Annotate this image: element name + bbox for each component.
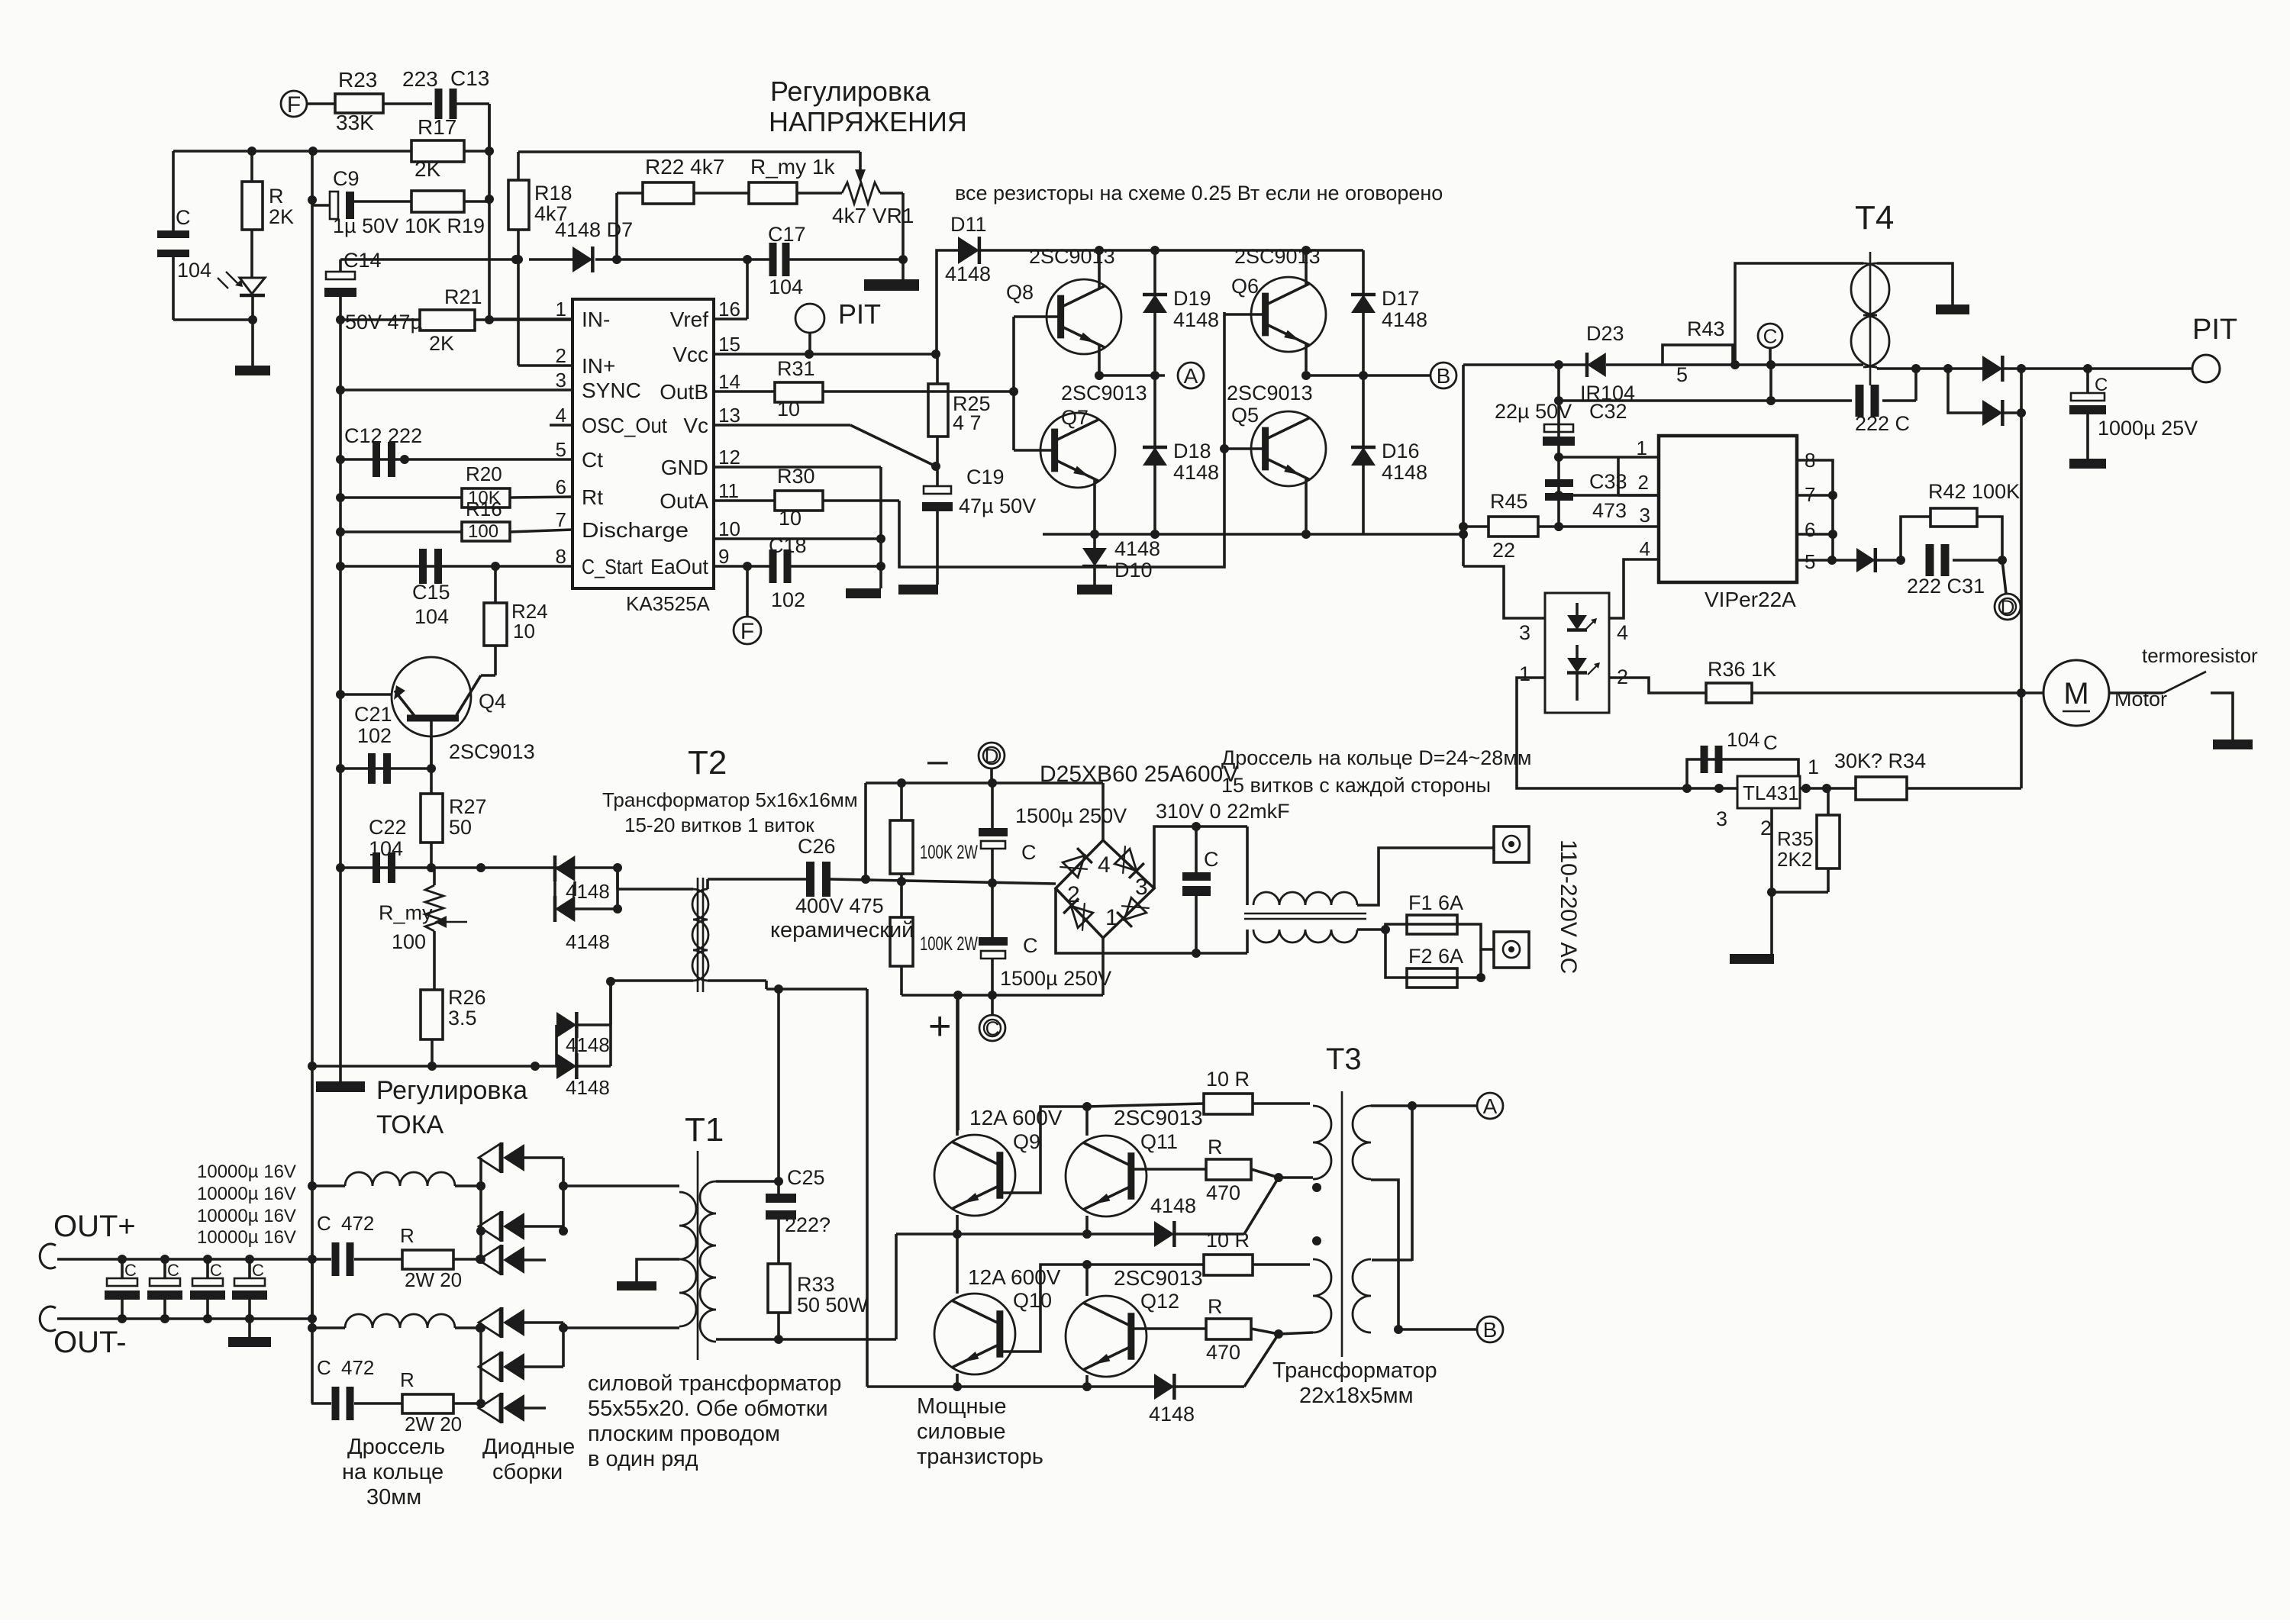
svg-text:13: 13 [718, 404, 740, 427]
svg-text:A: A [1483, 1094, 1498, 1118]
svg-text:1500µ 250V: 1500µ 250V [1015, 804, 1127, 827]
svg-text:OUT-: OUT- [53, 1326, 127, 1359]
svg-text:транзисторь: транзисторь [917, 1445, 1043, 1469]
svg-text:4148: 4148 [1382, 461, 1427, 484]
svg-text:Регулировка: Регулировка [376, 1076, 527, 1105]
svg-text:50 50W: 50 50W [797, 1294, 869, 1316]
svg-text:R22 4k7: R22 4k7 [645, 155, 724, 179]
svg-text:R_my 1k: R_my 1k [750, 155, 835, 179]
svg-text:9: 9 [718, 545, 729, 568]
svg-text:10000µ 16V: 10000µ 16V [197, 1184, 296, 1204]
svg-text:R: R [400, 1224, 414, 1247]
svg-text:104: 104 [1727, 728, 1759, 751]
svg-text:GND: GND [661, 456, 708, 479]
svg-text:3: 3 [1519, 621, 1530, 644]
svg-text:100: 100 [468, 521, 498, 542]
svg-text:10: 10 [777, 398, 800, 420]
svg-text:R30: R30 [777, 465, 815, 488]
svg-text:33K: 33K [336, 111, 374, 134]
svg-text:Q12: Q12 [1140, 1290, 1179, 1313]
svg-text:F: F [287, 92, 301, 118]
svg-text:M: M [2063, 677, 2088, 710]
svg-text:222?: 222? [785, 1213, 831, 1236]
svg-text:C: C [317, 1212, 331, 1235]
svg-text:10K R19: 10K R19 [405, 214, 485, 237]
svg-text:10: 10 [513, 620, 535, 643]
svg-text:OUT+: OUT+ [53, 1210, 136, 1243]
svg-text:R17: R17 [418, 115, 456, 139]
svg-text:12: 12 [718, 446, 740, 469]
svg-text:C25: C25 [787, 1166, 825, 1189]
svg-text:R: R [269, 185, 284, 208]
svg-text:3: 3 [1716, 807, 1727, 830]
svg-text:4148: 4148 [1114, 537, 1160, 560]
svg-text:T3: T3 [1326, 1042, 1362, 1076]
svg-text:4148: 4148 [945, 263, 991, 285]
svg-text:R: R [1208, 1136, 1223, 1158]
svg-text:D16: D16 [1382, 440, 1420, 462]
svg-text:B: B [1437, 364, 1451, 388]
svg-text:D: D [985, 744, 999, 767]
svg-text:4148: 4148 [1149, 1403, 1195, 1426]
svg-text:Rt: Rt [582, 485, 603, 509]
svg-text:3.5: 3.5 [448, 1007, 477, 1029]
svg-text:KA3525A: KA3525A [626, 592, 711, 615]
svg-text:4148: 4148 [1382, 308, 1427, 331]
svg-text:сборки: сборки [492, 1460, 563, 1484]
svg-text:4148 D7: 4148 D7 [555, 218, 633, 241]
svg-text:50: 50 [449, 816, 472, 839]
svg-text:Q8: Q8 [1006, 281, 1034, 304]
svg-text:R31: R31 [777, 357, 815, 380]
svg-text:1000µ 25V: 1000µ 25V [2098, 417, 2198, 440]
svg-text:6: 6 [1805, 518, 1815, 541]
svg-text:4: 4 [1098, 852, 1111, 878]
svg-text:100K 2W: 100K 2W [920, 842, 978, 863]
svg-text:Трансформатор: Трансформатор [1272, 1358, 1437, 1383]
svg-text:C: C [1021, 841, 1037, 864]
svg-text:22: 22 [1492, 539, 1515, 562]
svg-text:10: 10 [779, 507, 801, 530]
svg-text:D: D [2001, 595, 2015, 618]
svg-text:2: 2 [556, 344, 566, 367]
svg-text:C: C [252, 1261, 264, 1280]
svg-text:C: C [317, 1356, 331, 1379]
svg-text:Дроссель: Дроссель [347, 1435, 445, 1459]
svg-text:2K: 2K [269, 205, 294, 228]
svg-text:1µ 50V: 1µ 50V [333, 214, 398, 237]
svg-text:100K 2W: 100K 2W [920, 933, 978, 955]
svg-text:10000µ 16V: 10000µ 16V [197, 1206, 296, 1226]
svg-text:R45: R45 [1490, 490, 1528, 513]
svg-text:R: R [1208, 1295, 1223, 1318]
svg-text:C: C [2095, 375, 2108, 395]
svg-text:силовые: силовые [917, 1419, 1005, 1444]
svg-text:14: 14 [718, 370, 740, 393]
svg-text:C9: C9 [333, 167, 360, 190]
svg-text:55x55x20. Обе обмотки: 55x55x20. Обе обмотки [588, 1397, 828, 1421]
svg-text:Регулировка: Регулировка [770, 76, 931, 107]
svg-text:1: 1 [1105, 905, 1118, 930]
svg-text:C26: C26 [798, 835, 836, 858]
svg-text:12A 600V: 12A 600V [968, 1265, 1061, 1289]
svg-text:2SC9013: 2SC9013 [1114, 1106, 1203, 1129]
svg-text:R36 1K: R36 1K [1708, 658, 1776, 681]
svg-text:C32: C32 [1589, 400, 1627, 423]
svg-text:R27: R27 [449, 795, 487, 818]
svg-text:10000µ 16V: 10000µ 16V [197, 1227, 296, 1248]
svg-text:C13: C13 [450, 66, 489, 90]
svg-text:473: 473 [1592, 499, 1627, 522]
svg-text:TL431: TL431 [1743, 781, 1799, 804]
svg-text:Motor: Motor [2114, 688, 2167, 710]
svg-text:30K? R34: 30K? R34 [1834, 749, 1926, 772]
svg-text:Discharge: Discharge [582, 518, 689, 542]
svg-text:VIPer22A: VIPer22A [1705, 588, 1796, 611]
svg-text:470: 470 [1206, 1181, 1240, 1204]
svg-text:T2: T2 [688, 744, 727, 781]
svg-text:PIT: PIT [838, 298, 881, 330]
svg-text:4: 4 [1617, 621, 1628, 644]
svg-text:D18: D18 [1173, 440, 1211, 462]
svg-text:104: 104 [414, 605, 449, 628]
svg-text:104: 104 [369, 837, 403, 860]
svg-text:Q7: Q7 [1061, 406, 1089, 429]
svg-text:C21: C21 [354, 703, 392, 726]
svg-text:110-220V AC: 110-220V AC [1556, 839, 1581, 974]
svg-text:керамический: керамический [770, 918, 914, 942]
svg-text:3: 3 [1640, 504, 1650, 527]
svg-text:Q11: Q11 [1140, 1130, 1178, 1153]
svg-text:T1: T1 [685, 1111, 724, 1149]
svg-text:R43: R43 [1687, 317, 1725, 340]
svg-text:C33: C33 [1589, 470, 1627, 493]
svg-text:C: C [124, 1261, 137, 1280]
svg-text:на кольце: на кольце [342, 1460, 443, 1484]
svg-text:OSC_Out: OSC_Out [582, 414, 667, 437]
svg-text:50V 47µ: 50V 47µ [345, 311, 422, 333]
svg-text:R: R [400, 1368, 414, 1391]
svg-text:4148: 4148 [566, 1076, 610, 1099]
svg-text:C: C [1763, 324, 1778, 347]
svg-text:C15: C15 [412, 581, 450, 604]
svg-text:C14: C14 [343, 249, 382, 272]
svg-text:ТОКА: ТОКА [376, 1110, 443, 1139]
svg-text:T4: T4 [1855, 199, 1894, 237]
svg-text:11: 11 [718, 479, 739, 502]
svg-text:22x18x5мм: 22x18x5мм [1299, 1384, 1414, 1408]
svg-text:Q9: Q9 [1013, 1130, 1040, 1153]
svg-text:2W 20: 2W 20 [405, 1268, 462, 1291]
svg-text:Трансформатор 5x16x16мм: Трансформатор 5x16x16мм [602, 788, 858, 811]
svg-text:A: A [1184, 364, 1198, 388]
svg-text:310V 0 22mkF: 310V 0 22mkF [1156, 800, 1290, 823]
svg-text:102: 102 [357, 724, 392, 747]
svg-text:Мощные: Мощные [917, 1394, 1006, 1419]
svg-text:15: 15 [718, 333, 740, 356]
svg-text:22µ 50V: 22µ 50V [1495, 400, 1572, 423]
svg-text:R20: R20 [466, 462, 502, 485]
svg-text:15 витков с каждой стороны: 15 витков с каждой стороны [1221, 774, 1491, 797]
svg-text:C: C [176, 206, 191, 229]
svg-text:4148: 4148 [1173, 308, 1219, 331]
svg-text:Vc: Vc [683, 414, 708, 437]
svg-text:10000µ 16V: 10000µ 16V [197, 1162, 296, 1182]
svg-text:4 7: 4 7 [953, 411, 982, 434]
svg-text:104: 104 [177, 259, 211, 282]
svg-text:3: 3 [556, 369, 566, 391]
svg-text:R26: R26 [448, 986, 486, 1009]
svg-text:SYNC: SYNC [582, 379, 641, 402]
svg-text:R21: R21 [444, 285, 482, 308]
svg-text:Q6: Q6 [1231, 275, 1259, 298]
svg-text:5: 5 [1676, 363, 1688, 386]
svg-text:Vcc: Vcc [672, 343, 708, 366]
svg-text:R35: R35 [1777, 827, 1814, 850]
svg-text:16: 16 [718, 298, 740, 321]
svg-text:104: 104 [769, 275, 803, 298]
svg-text:8: 8 [556, 545, 566, 568]
svg-text:2W 20: 2W 20 [405, 1413, 462, 1435]
svg-text:1500µ 250V: 1500µ 250V [1000, 967, 1111, 990]
svg-text:C: C [1023, 934, 1038, 957]
svg-text:472: 472 [341, 1356, 374, 1379]
svg-text:C18: C18 [769, 534, 807, 557]
svg-text:15-20 витков 1 виток: 15-20 витков 1 виток [624, 814, 814, 836]
svg-text:10 R: 10 R [1206, 1068, 1250, 1091]
svg-text:4148: 4148 [566, 930, 610, 953]
svg-text:R18: R18 [534, 182, 572, 205]
svg-text:в один ряд: в один ряд [588, 1447, 698, 1471]
svg-text:2SC9013: 2SC9013 [1227, 382, 1313, 404]
svg-text:4: 4 [556, 404, 566, 427]
svg-text:D17: D17 [1382, 287, 1420, 310]
svg-text:Ct: Ct [582, 448, 603, 472]
svg-text:2SC9013: 2SC9013 [1114, 1266, 1203, 1290]
svg-text:B: B [1483, 1318, 1498, 1342]
svg-text:C17: C17 [768, 223, 806, 246]
svg-text:C: C [167, 1261, 179, 1280]
svg-text:–: – [927, 740, 948, 781]
svg-text:5: 5 [556, 438, 566, 461]
svg-text:C: C [1763, 731, 1778, 754]
svg-text:2: 2 [1067, 882, 1080, 907]
svg-text:Диодные: Диодные [482, 1435, 575, 1459]
svg-text:1: 1 [556, 298, 566, 321]
svg-text:F1 6A: F1 6A [1408, 891, 1463, 914]
svg-text:Q10: Q10 [1013, 1289, 1052, 1312]
svg-text:R16: R16 [466, 498, 502, 520]
svg-text:47µ 50V: 47µ 50V [959, 495, 1036, 517]
svg-text:C12 222: C12 222 [344, 424, 422, 447]
svg-text:C22: C22 [369, 816, 407, 839]
svg-text:102: 102 [771, 588, 805, 611]
svg-text:R42 100K: R42 100K [1928, 480, 2020, 503]
svg-text:6: 6 [556, 475, 566, 498]
svg-text:222 C: 222 C [1855, 412, 1910, 435]
svg-text:EaOut: EaOut [650, 555, 708, 578]
svg-text:все резисторы на схеме 0.25 Вт: все резисторы на схеме 0.25 Вт если не о… [955, 182, 1443, 205]
svg-text:силовой трансформатор: силовой трансформатор [588, 1371, 841, 1396]
svg-text:2SC9013: 2SC9013 [449, 740, 535, 763]
svg-text:222 C31: 222 C31 [1907, 575, 1985, 598]
svg-text:472: 472 [341, 1212, 374, 1235]
svg-text:1: 1 [1519, 662, 1530, 685]
svg-text:10: 10 [718, 517, 740, 540]
svg-text:D23: D23 [1586, 322, 1624, 345]
svg-text:R_my: R_my [379, 901, 433, 924]
svg-text:470: 470 [1206, 1341, 1240, 1364]
svg-text:Q4: Q4 [479, 690, 506, 713]
svg-text:7: 7 [556, 508, 566, 531]
svg-text:3: 3 [1135, 875, 1148, 900]
svg-text:D25XB60 25A600V: D25XB60 25A600V [1040, 762, 1238, 787]
svg-text:D19: D19 [1173, 287, 1211, 310]
svg-text:C: C [210, 1261, 222, 1280]
svg-text:2SC9013: 2SC9013 [1029, 245, 1115, 268]
svg-text:2SC9013: 2SC9013 [1061, 382, 1147, 404]
svg-text:4148: 4148 [1173, 461, 1219, 484]
svg-text:плоским проводом: плоским проводом [588, 1422, 780, 1446]
svg-text:IN-: IN- [582, 308, 610, 331]
svg-text:R33: R33 [797, 1273, 835, 1296]
svg-text:+: + [928, 1004, 951, 1049]
svg-text:Vref: Vref [670, 308, 709, 331]
svg-text:D11: D11 [950, 213, 987, 236]
svg-text:1: 1 [1808, 756, 1819, 778]
svg-text:4148: 4148 [1150, 1194, 1196, 1217]
svg-text:4148: 4148 [566, 880, 610, 903]
svg-text:F: F [740, 619, 754, 644]
svg-text:223: 223 [402, 67, 438, 91]
svg-text:Дроссель на кольце D=24~28мм: Дроссель на кольце D=24~28мм [1221, 746, 1531, 769]
svg-text:4: 4 [1640, 537, 1650, 560]
svg-text:termoresistor: termoresistor [2142, 644, 2258, 667]
svg-text:2K2: 2K2 [1777, 848, 1812, 871]
svg-text:OutA: OutA [660, 489, 708, 513]
svg-text:C: C [985, 1017, 1000, 1039]
svg-text:C19: C19 [966, 466, 1005, 488]
svg-text:100: 100 [392, 930, 426, 953]
svg-text:4148: 4148 [566, 1033, 610, 1056]
svg-text:PIT: PIT [2192, 314, 2237, 346]
svg-text:30мм: 30мм [366, 1485, 421, 1510]
svg-text:F2 6A: F2 6A [1408, 945, 1463, 968]
svg-text:2: 2 [1760, 817, 1772, 839]
svg-text:2: 2 [1638, 471, 1649, 494]
svg-text:R23: R23 [338, 68, 377, 92]
svg-text:12A 600V: 12A 600V [969, 1106, 1063, 1129]
svg-text:2K: 2K [429, 332, 454, 355]
svg-text:400V 475: 400V 475 [795, 894, 884, 917]
svg-text:Q5: Q5 [1231, 404, 1259, 427]
svg-text:D10: D10 [1114, 559, 1153, 582]
svg-text:OutB: OutB [660, 380, 708, 404]
svg-text:5: 5 [1805, 550, 1815, 573]
svg-text:C: C [1204, 848, 1219, 871]
svg-text:C_Start: C_Start [582, 555, 643, 578]
svg-text:10 R: 10 R [1206, 1229, 1250, 1252]
svg-text:2K: 2K [414, 157, 441, 181]
svg-text:НАПРЯЖЕНИЯ: НАПРЯЖЕНИЯ [769, 106, 967, 137]
svg-text:IN+: IN+ [582, 354, 615, 378]
